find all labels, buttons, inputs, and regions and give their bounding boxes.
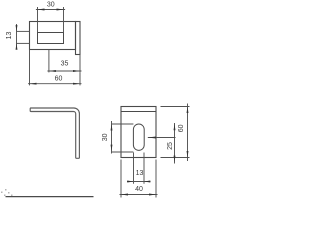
svg-text:13: 13	[136, 170, 144, 177]
top view: outer body rectangle	[30, 22, 76, 50]
side view: L profile	[30, 108, 79, 158]
corner speckles	[1, 189, 13, 196]
svg-text:35: 35	[61, 61, 69, 68]
dimension 13 (below front view)	[127, 153, 151, 184]
top view: slot rectangle	[38, 33, 64, 44]
dimension 30 (left of front view)	[112, 121, 134, 154]
svg-text:60: 60	[178, 124, 185, 132]
front view: plate rectangle	[121, 107, 156, 158]
svg-text:25: 25	[167, 142, 174, 150]
ground line bottom-left	[6, 196, 94, 198]
dimension 60 (bottom of top view)	[28, 50, 82, 86]
leader from slot centre to 25 dim	[148, 137, 176, 139]
dimension 13 (left of top view)	[17, 24, 30, 49]
svg-text:60: 60	[55, 76, 63, 83]
svg-text:30: 30	[47, 2, 55, 9]
dimension 30 (top)	[36, 7, 65, 33]
svg-text:13: 13	[6, 32, 13, 40]
svg-text:30: 30	[102, 133, 109, 141]
dimension 40 (bottom of front view)	[120, 160, 158, 198]
dimension 25 (right of front view)	[161, 123, 190, 164]
front view: fold line	[121, 111, 156, 113]
top view: upright leg thin rectangle	[76, 22, 81, 55]
dimension 60 (far right of front view)	[161, 104, 190, 162]
dimension 35 (below top view)	[47, 50, 81, 73]
svg-text:40: 40	[135, 186, 143, 193]
front view: slot (stadium)	[133, 124, 144, 150]
